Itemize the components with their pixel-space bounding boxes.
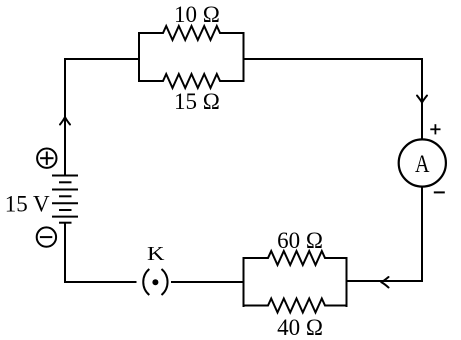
- svg-text:40 Ω: 40 Ω: [277, 315, 323, 340]
- svg-text:K: K: [147, 244, 165, 265]
- svg-text:60 Ω: 60 Ω: [277, 228, 323, 253]
- svg-text:A: A: [415, 149, 430, 178]
- svg-text:15 Ω: 15 Ω: [174, 89, 220, 114]
- svg-text:15 V: 15 V: [5, 191, 50, 216]
- svg-text:10 Ω: 10 Ω: [174, 2, 220, 27]
